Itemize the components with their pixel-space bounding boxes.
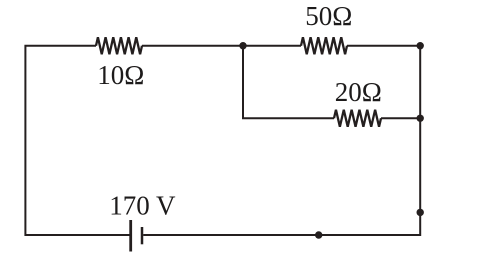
svg-text:50Ω: 50Ω bbox=[305, 1, 352, 31]
svg-text:10Ω: 10Ω bbox=[97, 60, 144, 90]
svg-text:20Ω: 20Ω bbox=[335, 77, 382, 107]
svg-text:170 V: 170 V bbox=[109, 191, 176, 221]
